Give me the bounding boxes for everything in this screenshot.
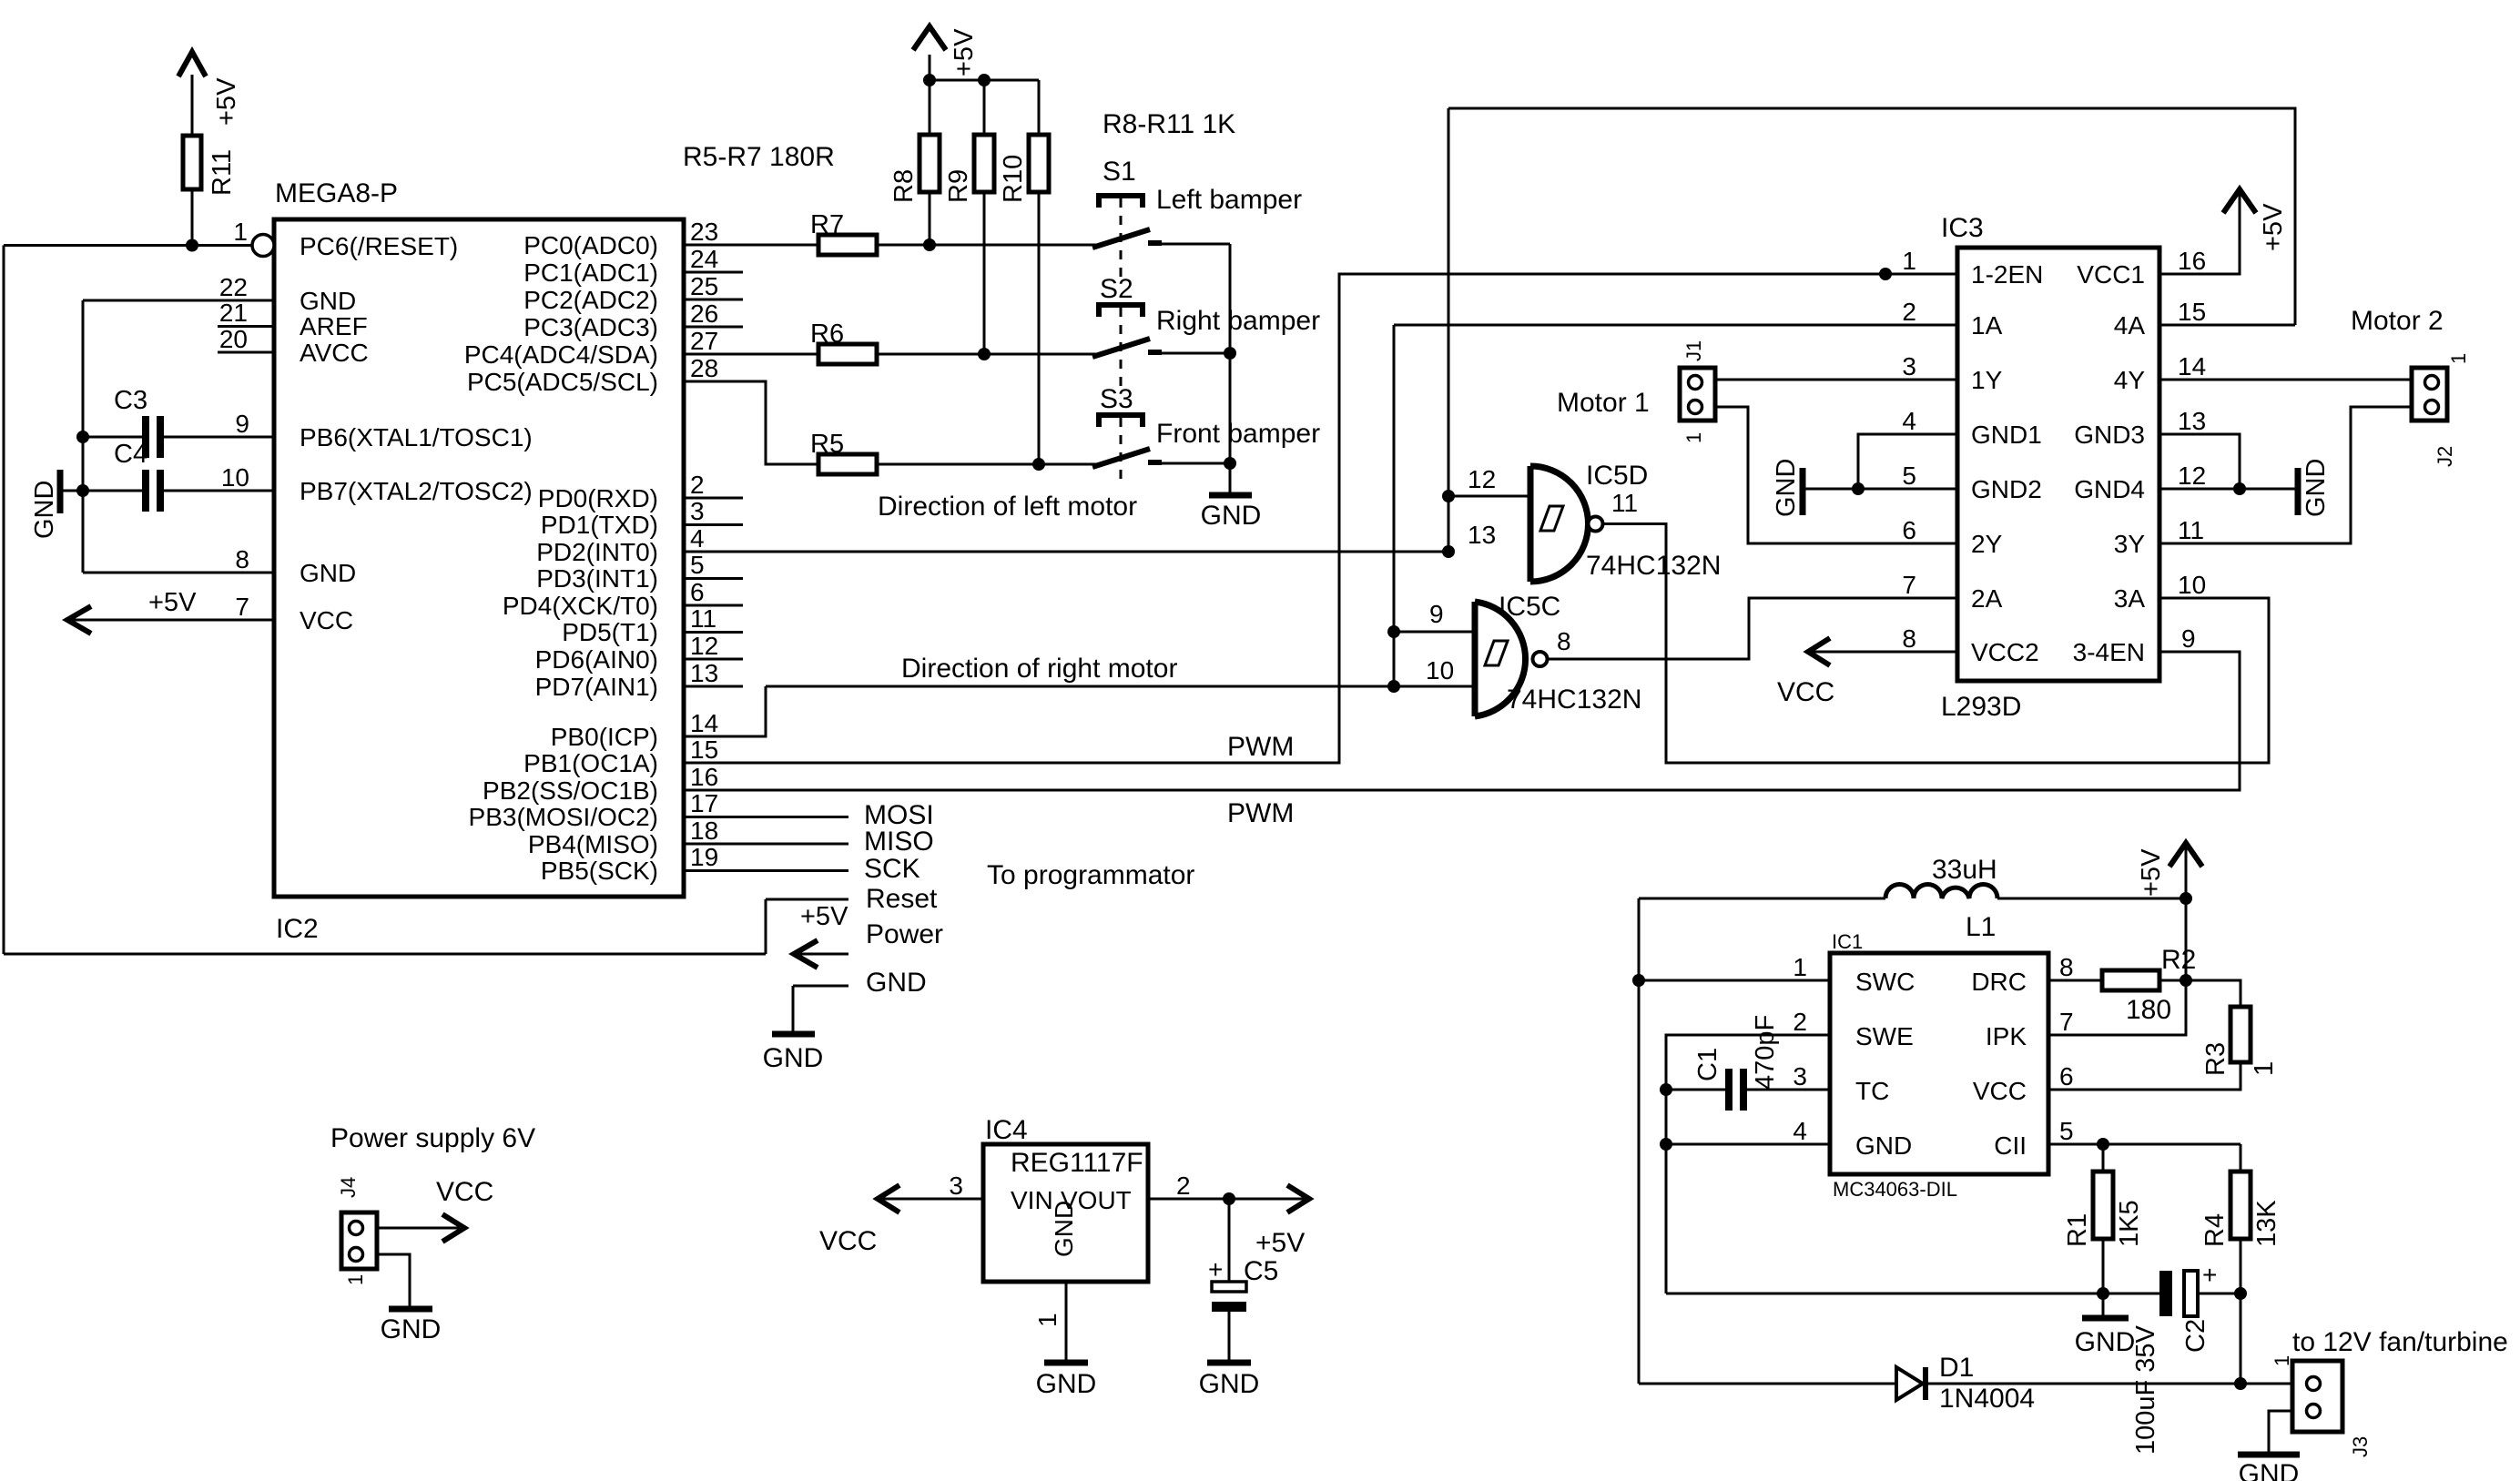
svg-text:21: 21	[219, 299, 248, 327]
svg-text:R8: R8	[889, 169, 919, 203]
svg-text:+5V: +5V	[148, 588, 197, 617]
svg-text:S2: S2	[1100, 274, 1133, 304]
wire GND4 pin12 to ground	[2159, 488, 2295, 491]
svg-text:GND: GND	[300, 287, 356, 315]
wire PB2 PWM to 3-4EN	[684, 652, 2240, 790]
wire R11 bottom	[191, 189, 194, 246]
svg-text:C4: C4	[114, 440, 147, 469]
switch S2 arm	[1092, 339, 1150, 357]
wire C1 right lead to TC pin3	[1747, 1089, 1830, 1091]
svg-text:6: 6	[1902, 516, 1916, 544]
svg-text:MEGA8-P: MEGA8-P	[275, 178, 398, 208]
svg-text:GND: GND	[2075, 1327, 2136, 1357]
+5V power arrow (top left)	[178, 52, 206, 76]
svg-text:+5V: +5V	[212, 77, 241, 126]
resistor R3	[2230, 1007, 2251, 1062]
wire IPK pin7	[2048, 980, 2186, 1035]
svg-text:PC5(ADC5/SCL): PC5(ADC5/SCL)	[467, 368, 658, 396]
svg-text:1: 1	[1793, 953, 1807, 981]
node dot TC rail	[1660, 1083, 1672, 1096]
capacitor C1	[1725, 1069, 1732, 1111]
svg-text:R5-R7 180R: R5-R7 180R	[683, 142, 835, 172]
svg-text:1K5: 1K5	[2115, 1200, 2144, 1247]
svg-text:C1: C1	[1693, 1048, 1722, 1081]
svg-text:PC6(/RESET): PC6(/RESET)	[300, 232, 458, 260]
resistor R10	[1029, 135, 1049, 192]
wire VCC1 pin16 to +5V	[2159, 189, 2240, 274]
svg-text:VIN: VIN	[1011, 1186, 1053, 1214]
capacitor C2 negative plate	[2159, 1271, 2172, 1316]
wire IC5C pin10 stub	[1394, 685, 1475, 688]
ground bar (J3)	[2238, 1452, 2300, 1458]
wire MOSI pin17	[684, 816, 848, 818]
switch S1 dashed plunger	[1120, 198, 1123, 279]
svg-text:3-4EN: 3-4EN	[2073, 638, 2145, 666]
ground bar (switches)	[1209, 492, 1252, 499]
svg-text:180: 180	[2126, 995, 2171, 1025]
svg-text:PD7(AIN1): PD7(AIN1)	[535, 673, 658, 701]
svg-text:SWC: SWC	[1855, 968, 1915, 996]
wire GND3 pin13 jog	[2159, 434, 2240, 489]
wire R9 top lead	[983, 80, 986, 135]
svg-text:18: 18	[690, 817, 718, 845]
NAND gate IC5D body	[1528, 466, 1534, 582]
wire R9 bottom lead crosses PC0 wire	[983, 192, 986, 354]
svg-text:25: 25	[690, 272, 718, 300]
short stub pin 12 PD6	[684, 658, 743, 661]
svg-text:SWE: SWE	[1855, 1022, 1914, 1050]
svg-text:To programmator: To programmator	[987, 860, 1194, 890]
svg-text:Motor 2: Motor 2	[2351, 306, 2444, 336]
node dot R4 bottom	[2234, 1287, 2247, 1300]
wire PB0 pin14 riser	[684, 686, 766, 736]
wire C5 bottom lead	[1228, 1312, 1231, 1363]
wire IC5C output to 2A	[1548, 598, 1958, 659]
svg-text:PD3(INT1): PD3(INT1)	[536, 564, 658, 593]
svg-text:2: 2	[1793, 1008, 1807, 1036]
capacitor C2 positive plate	[2184, 1271, 2198, 1316]
wire GND pin22	[83, 299, 274, 302]
connector J2 box	[2412, 368, 2447, 421]
svg-text:6: 6	[690, 578, 705, 606]
wire C1 left lead	[1666, 1089, 1725, 1091]
svg-text:R1: R1	[2063, 1213, 2092, 1247]
svg-text:1: 1	[1033, 1313, 1062, 1327]
svg-text:IC5C: IC5C	[1499, 592, 1560, 622]
resistor R1	[2093, 1172, 2113, 1239]
svg-text:PD6(AIN0): PD6(AIN0)	[535, 645, 658, 674]
svg-text:GND: GND	[381, 1314, 442, 1344]
svg-text:PD0(RXD): PD0(RXD)	[538, 484, 658, 512]
IC5D schmitt hysteresis mark	[1540, 506, 1563, 531]
svg-text:1: 1	[1902, 247, 1916, 275]
svg-text:GND: GND	[30, 481, 59, 539]
short stub pin 21 AREF	[218, 325, 274, 328]
svg-text:3: 3	[949, 1172, 963, 1200]
wire PC0 pin23 to R7	[684, 244, 818, 247]
wire MISO pin18	[684, 843, 848, 846]
wire J1 pin2 to 1Y	[1715, 379, 1957, 381]
svg-text:11: 11	[690, 604, 716, 633]
svg-text:GND: GND	[2302, 459, 2331, 517]
svg-text:1: 1	[344, 1274, 367, 1285]
svg-text:R5: R5	[810, 430, 844, 459]
node dot +5V/L1	[2180, 892, 2192, 905]
svg-text:VCC2: VCC2	[1971, 638, 2039, 666]
svg-text:PC4(ADC4/SDA): PC4(ADC4/SDA)	[464, 340, 658, 369]
node dot R8 bottom on PC0 wire	[923, 238, 936, 251]
svg-text:2Y: 2Y	[1971, 530, 2003, 558]
svg-text:MC34063-DIL: MC34063-DIL	[1833, 1178, 1957, 1201]
svg-text:GND: GND	[1036, 1369, 1097, 1399]
NAND gate IC5C body	[1472, 602, 1478, 716]
svg-text:3: 3	[690, 497, 705, 525]
ground bar (IC4)	[1044, 1360, 1088, 1366]
svg-text:J1: J1	[1682, 340, 1705, 361]
capacitor C3	[142, 416, 149, 458]
svg-text:14: 14	[2178, 352, 2206, 380]
switch S1 right contact tick	[1148, 240, 1162, 246]
wire R7 to S1	[877, 244, 1097, 247]
ground bar (C5)	[1207, 1360, 1251, 1366]
wire GND drop programmator	[793, 985, 848, 988]
wire VOUT pin2	[1148, 1198, 1307, 1201]
svg-text:12: 12	[690, 632, 718, 660]
node dot IC5D pin12	[1442, 490, 1455, 502]
short stub pin 2 PD0	[684, 497, 743, 500]
svg-text:PB2(SS/OC1B): PB2(SS/OC1B)	[483, 776, 658, 805]
node dot R9 bottom on PC4 wire	[978, 348, 991, 360]
connector J4 box	[341, 1212, 377, 1269]
wire reset net: pin1 to left rail	[4, 244, 252, 247]
svg-text:4Y: 4Y	[2114, 366, 2146, 394]
wire 1A vertical	[1393, 325, 1396, 686]
node dot R8 top	[923, 74, 936, 86]
wire R5 to S3	[877, 463, 1097, 466]
J1 pin circles	[1689, 376, 1702, 390]
svg-text:2: 2	[690, 471, 705, 499]
node dot S2 common	[1224, 347, 1236, 360]
wire PD2 pin4 long	[684, 551, 1448, 553]
ground bar (left of IC3, vertical)	[1800, 468, 1806, 515]
svg-text:VCC: VCC	[1777, 677, 1834, 707]
svg-text:23: 23	[690, 218, 718, 246]
svg-text:+5V: +5V	[950, 28, 979, 76]
wire GND1 pin4 jog	[1858, 434, 1957, 489]
svg-text:SCK: SCK	[864, 854, 920, 884]
svg-text:1A: 1A	[1971, 311, 2003, 340]
wire D1 anode rail	[1639, 1383, 1896, 1385]
wire bottom reset run	[4, 953, 766, 956]
svg-text:15: 15	[690, 735, 718, 764]
wire 1A run to IC3	[1394, 324, 1957, 327]
VCC arrow (J4, pointing right)	[442, 1214, 464, 1242]
short stub pin 5 PD3	[684, 577, 743, 580]
svg-text:1: 1	[2250, 1061, 2279, 1076]
svg-text:8: 8	[235, 545, 249, 573]
+5V arrow (pin7, pointing left)	[67, 606, 91, 634]
svg-text:R7: R7	[810, 210, 844, 239]
short stub pin 26 PC3	[684, 326, 743, 329]
resistor R2	[2102, 970, 2159, 990]
wire R1 ground drop	[2102, 1293, 2105, 1318]
wire 4Y pin14 to J2	[2159, 379, 2412, 381]
wire left rail vertical	[3, 246, 5, 955]
wire inductor input from SWC rail	[1639, 898, 1885, 900]
svg-text:19: 19	[690, 843, 718, 871]
short stub pin 11 PD5	[684, 631, 743, 634]
svg-text:1: 1	[2447, 353, 2470, 364]
switch S1 right contact wire	[1149, 243, 1230, 246]
ground bar (right of IC3, vertical)	[2295, 468, 2302, 515]
short stub pin 24 PC1	[684, 271, 743, 274]
svg-text:+: +	[1208, 1255, 1223, 1283]
svg-text:2: 2	[1902, 298, 1916, 326]
svg-text:R10: R10	[999, 155, 1028, 203]
+5V arrow (IC4 out, pointing right)	[1287, 1185, 1309, 1212]
node dot D1/J3	[2234, 1377, 2247, 1390]
svg-text:12: 12	[2178, 462, 2206, 490]
wire switches common vertical	[1229, 244, 1232, 495]
svg-text:C2: C2	[2181, 1319, 2210, 1353]
capacitor C4	[142, 470, 149, 512]
IC4 body box	[983, 1144, 1148, 1282]
resistor R4	[2230, 1172, 2251, 1239]
ground bar (programmator)	[772, 1031, 815, 1038]
svg-text:C5: C5	[1244, 1256, 1278, 1286]
wire SWE pin2	[1666, 1035, 1830, 1293]
svg-text:GND: GND	[1772, 459, 1801, 517]
svg-text:R11: R11	[208, 149, 237, 196]
svg-text:PC3(ADC3): PC3(ADC3)	[523, 313, 658, 341]
wire CII pin5 run	[2048, 1143, 2241, 1146]
svg-text:Front bamper: Front bamper	[1156, 419, 1320, 449]
svg-text:4: 4	[690, 524, 705, 553]
svg-text:Direction of right motor: Direction of right motor	[901, 654, 1177, 684]
node dot IC5C pin9	[1387, 625, 1400, 638]
wire IC5D input vertical from top run	[1448, 108, 1450, 552]
inductor L1	[1885, 885, 1997, 898]
svg-text:GND: GND	[763, 1043, 824, 1073]
switch S3 right contact tick	[1148, 460, 1162, 465]
wire pin9 to C3	[164, 436, 274, 439]
resistor R5	[818, 454, 877, 474]
wire SCK pin19	[684, 869, 848, 872]
wire C2 to output node	[2198, 1293, 2241, 1295]
svg-text:3Y: 3Y	[2114, 530, 2146, 558]
svg-text:1: 1	[2271, 1355, 2293, 1366]
wire PC5 pin28 jog	[684, 381, 818, 464]
node dot R1/gnd rail	[2097, 1287, 2109, 1300]
wire R11 top to +5V arrow	[191, 75, 194, 136]
node dot C3	[76, 431, 89, 443]
switch S2 actuator bracket	[1099, 305, 1143, 317]
wire R8 bottom lead	[929, 192, 931, 245]
wire DRC pin8 to R2	[2048, 979, 2102, 982]
svg-text:GND: GND	[1855, 1131, 1912, 1160]
wire R6 to S2	[877, 353, 1097, 356]
svg-text:10: 10	[221, 463, 249, 492]
svg-text:R4: R4	[2200, 1213, 2230, 1247]
svg-text:5: 5	[690, 551, 705, 579]
short stub pin 13 PD7	[684, 685, 743, 688]
wire 4A stub pin15	[2159, 324, 2295, 327]
J4 pin circles	[350, 1222, 363, 1235]
svg-text:PD2(INT0): PD2(INT0)	[536, 538, 658, 566]
wire GND pin4	[1666, 1143, 1830, 1146]
svg-text:CII: CII	[1994, 1131, 2027, 1160]
svg-text:to 12V fan/turbine: to 12V fan/turbine	[2292, 1327, 2508, 1357]
node dot R1 top	[2097, 1138, 2109, 1151]
IC5C schmitt hysteresis mark	[1485, 641, 1508, 665]
svg-text:5: 5	[1902, 462, 1916, 490]
svg-text:1N4004: 1N4004	[1939, 1384, 2035, 1414]
svg-text:470pF: 470pF	[1751, 1015, 1780, 1090]
svg-text:IC1: IC1	[1832, 930, 1863, 953]
svg-text:R8-R11 1K: R8-R11 1K	[1102, 109, 1235, 139]
svg-text:REG1117F: REG1117F	[1011, 1148, 1143, 1178]
svg-text:GND: GND	[2239, 1459, 2300, 1481]
svg-text:IC4: IC4	[985, 1115, 1028, 1145]
svg-text:GND: GND	[1199, 1369, 1260, 1399]
svg-text:6: 6	[2059, 1062, 2074, 1090]
svg-text:7: 7	[235, 593, 249, 621]
connector J1 box	[1680, 368, 1715, 421]
svg-text:IC2: IC2	[276, 914, 319, 944]
svg-text:R3: R3	[2201, 1042, 2230, 1076]
svg-text:Power supply 6V: Power supply 6V	[330, 1123, 535, 1153]
svg-text:J3: J3	[2349, 1436, 2372, 1457]
wire IC5D output to 3A	[1603, 524, 2270, 764]
svg-text:4A: 4A	[2114, 311, 2146, 340]
svg-text:Motor 1: Motor 1	[1557, 388, 1650, 418]
svg-text:1: 1	[1682, 432, 1705, 443]
short stub pin 3 PD1	[684, 523, 743, 526]
switch S2 right contact wire	[1149, 352, 1230, 355]
node dot GND3/GND4	[2233, 482, 2246, 495]
connector J3 box	[2292, 1361, 2342, 1432]
svg-text:8: 8	[1902, 624, 1916, 653]
svg-text:VCC: VCC	[436, 1177, 493, 1207]
svg-text:Direction of left motor: Direction of left motor	[878, 492, 1137, 522]
svg-text:22: 22	[219, 273, 248, 301]
wire VCC pin7 to +5V arrow	[71, 619, 274, 622]
wire reset riser	[765, 899, 767, 954]
svg-text:IC3: IC3	[1941, 213, 1984, 243]
svg-text:16: 16	[2178, 247, 2206, 275]
svg-text:PD4(XCK/T0): PD4(XCK/T0)	[503, 592, 658, 620]
svg-text:33uH: 33uH	[1932, 855, 1997, 885]
svg-text:PB0(ICP): PB0(ICP)	[551, 723, 658, 751]
capacitor C5 negative plate	[1212, 1302, 1246, 1312]
wire to GND symbol	[62, 490, 83, 492]
node dot R2/+5V	[2180, 974, 2192, 987]
ground bar (J4)	[389, 1306, 432, 1313]
resistor R8	[920, 135, 940, 192]
svg-text:+5V: +5V	[2259, 203, 2288, 251]
svg-text:MISO: MISO	[864, 827, 934, 857]
IC5D output bubble	[1589, 517, 1603, 532]
wire J3 pin2 to ground	[2269, 1411, 2292, 1455]
svg-text:R2: R2	[2161, 945, 2196, 975]
wire gnd rail to C2	[1666, 1293, 2159, 1295]
svg-text:10: 10	[2178, 571, 2206, 599]
svg-text:PD5(T1): PD5(T1)	[562, 618, 658, 646]
svg-text:IC5D: IC5D	[1586, 461, 1648, 491]
svg-text:2A: 2A	[1971, 584, 2003, 613]
IC5C output bubble	[1533, 652, 1548, 666]
wire VIN pin3 to VCC arrow	[879, 1198, 983, 1201]
svg-text:8: 8	[1557, 627, 1571, 655]
wire top run to 4A	[1448, 108, 2295, 325]
svg-text:+5V: +5V	[800, 902, 848, 931]
wire IC5D pin12 stub	[1448, 495, 1530, 498]
svg-text:AREF: AREF	[300, 312, 368, 340]
wire gnd left vertical	[82, 300, 85, 573]
svg-text:PC1(ADC1): PC1(ADC1)	[523, 259, 658, 287]
wire R1 bottom lead	[2102, 1239, 2105, 1293]
switch S3 actuator bracket	[1099, 415, 1143, 427]
capacitor C5 positive plate	[1212, 1282, 1246, 1292]
wire R2 to node	[2159, 979, 2186, 982]
svg-text:PWM: PWM	[1227, 798, 1294, 828]
wire R1 top lead	[2102, 1144, 2105, 1172]
svg-text:15: 15	[2178, 298, 2206, 326]
node dot R10 bottom on PC5 wire	[1032, 458, 1045, 471]
switch S1 arm	[1092, 229, 1150, 248]
wire J4 pin2 to VCC arrow	[377, 1227, 462, 1230]
wire to Reset label	[766, 898, 848, 901]
node dot IC5D pin13	[1442, 545, 1455, 558]
svg-text:74HC132N: 74HC132N	[1586, 551, 1721, 581]
node dot on 1-2EN wire	[1879, 268, 1892, 280]
switch S3 dashed plunger	[1120, 418, 1123, 484]
wire PC4 pin27 to R6	[684, 353, 818, 356]
svg-text:PB1(OC1A): PB1(OC1A)	[523, 749, 658, 777]
wire J1 pin1 to 2Y	[1715, 407, 1957, 543]
svg-text:J4: J4	[337, 1177, 360, 1198]
node dot C5	[1223, 1192, 1235, 1205]
node dot GND1/GND2	[1852, 482, 1865, 495]
svg-text:GND1: GND1	[1971, 421, 2042, 449]
switch S3 arm	[1092, 449, 1150, 467]
svg-text:VCC: VCC	[819, 1226, 877, 1256]
node dot S3 common	[1224, 457, 1236, 470]
svg-text:+5V: +5V	[2137, 848, 2166, 897]
svg-text:GND: GND	[1201, 501, 1262, 531]
svg-text:GND: GND	[300, 559, 356, 587]
wire pullup top bus	[930, 79, 1039, 82]
svg-text:9: 9	[1429, 600, 1444, 628]
resistor R7	[818, 235, 877, 255]
svg-text:16: 16	[690, 763, 718, 791]
wire GND pin8	[83, 572, 274, 574]
svg-text:12: 12	[1468, 465, 1496, 493]
J2 pin circles	[2425, 376, 2439, 390]
switch S2 right contact tick	[1148, 350, 1162, 355]
svg-text:PWM: PWM	[1227, 732, 1294, 762]
svg-text:28: 28	[690, 354, 718, 382]
VCC2 pin8 arrow	[1810, 651, 1957, 654]
wire J4 pin1 to ground	[377, 1254, 410, 1309]
wire SWC pin1	[1639, 979, 1830, 982]
svg-text:Reset: Reset	[866, 884, 938, 914]
switch S2 dashed plunger	[1120, 308, 1123, 388]
svg-text:11: 11	[2178, 516, 2204, 544]
svg-text:1Y: 1Y	[1971, 366, 2003, 394]
+5V pullup rail arrow	[929, 55, 931, 80]
wire output node down to D1 rail	[2240, 1293, 2242, 1384]
